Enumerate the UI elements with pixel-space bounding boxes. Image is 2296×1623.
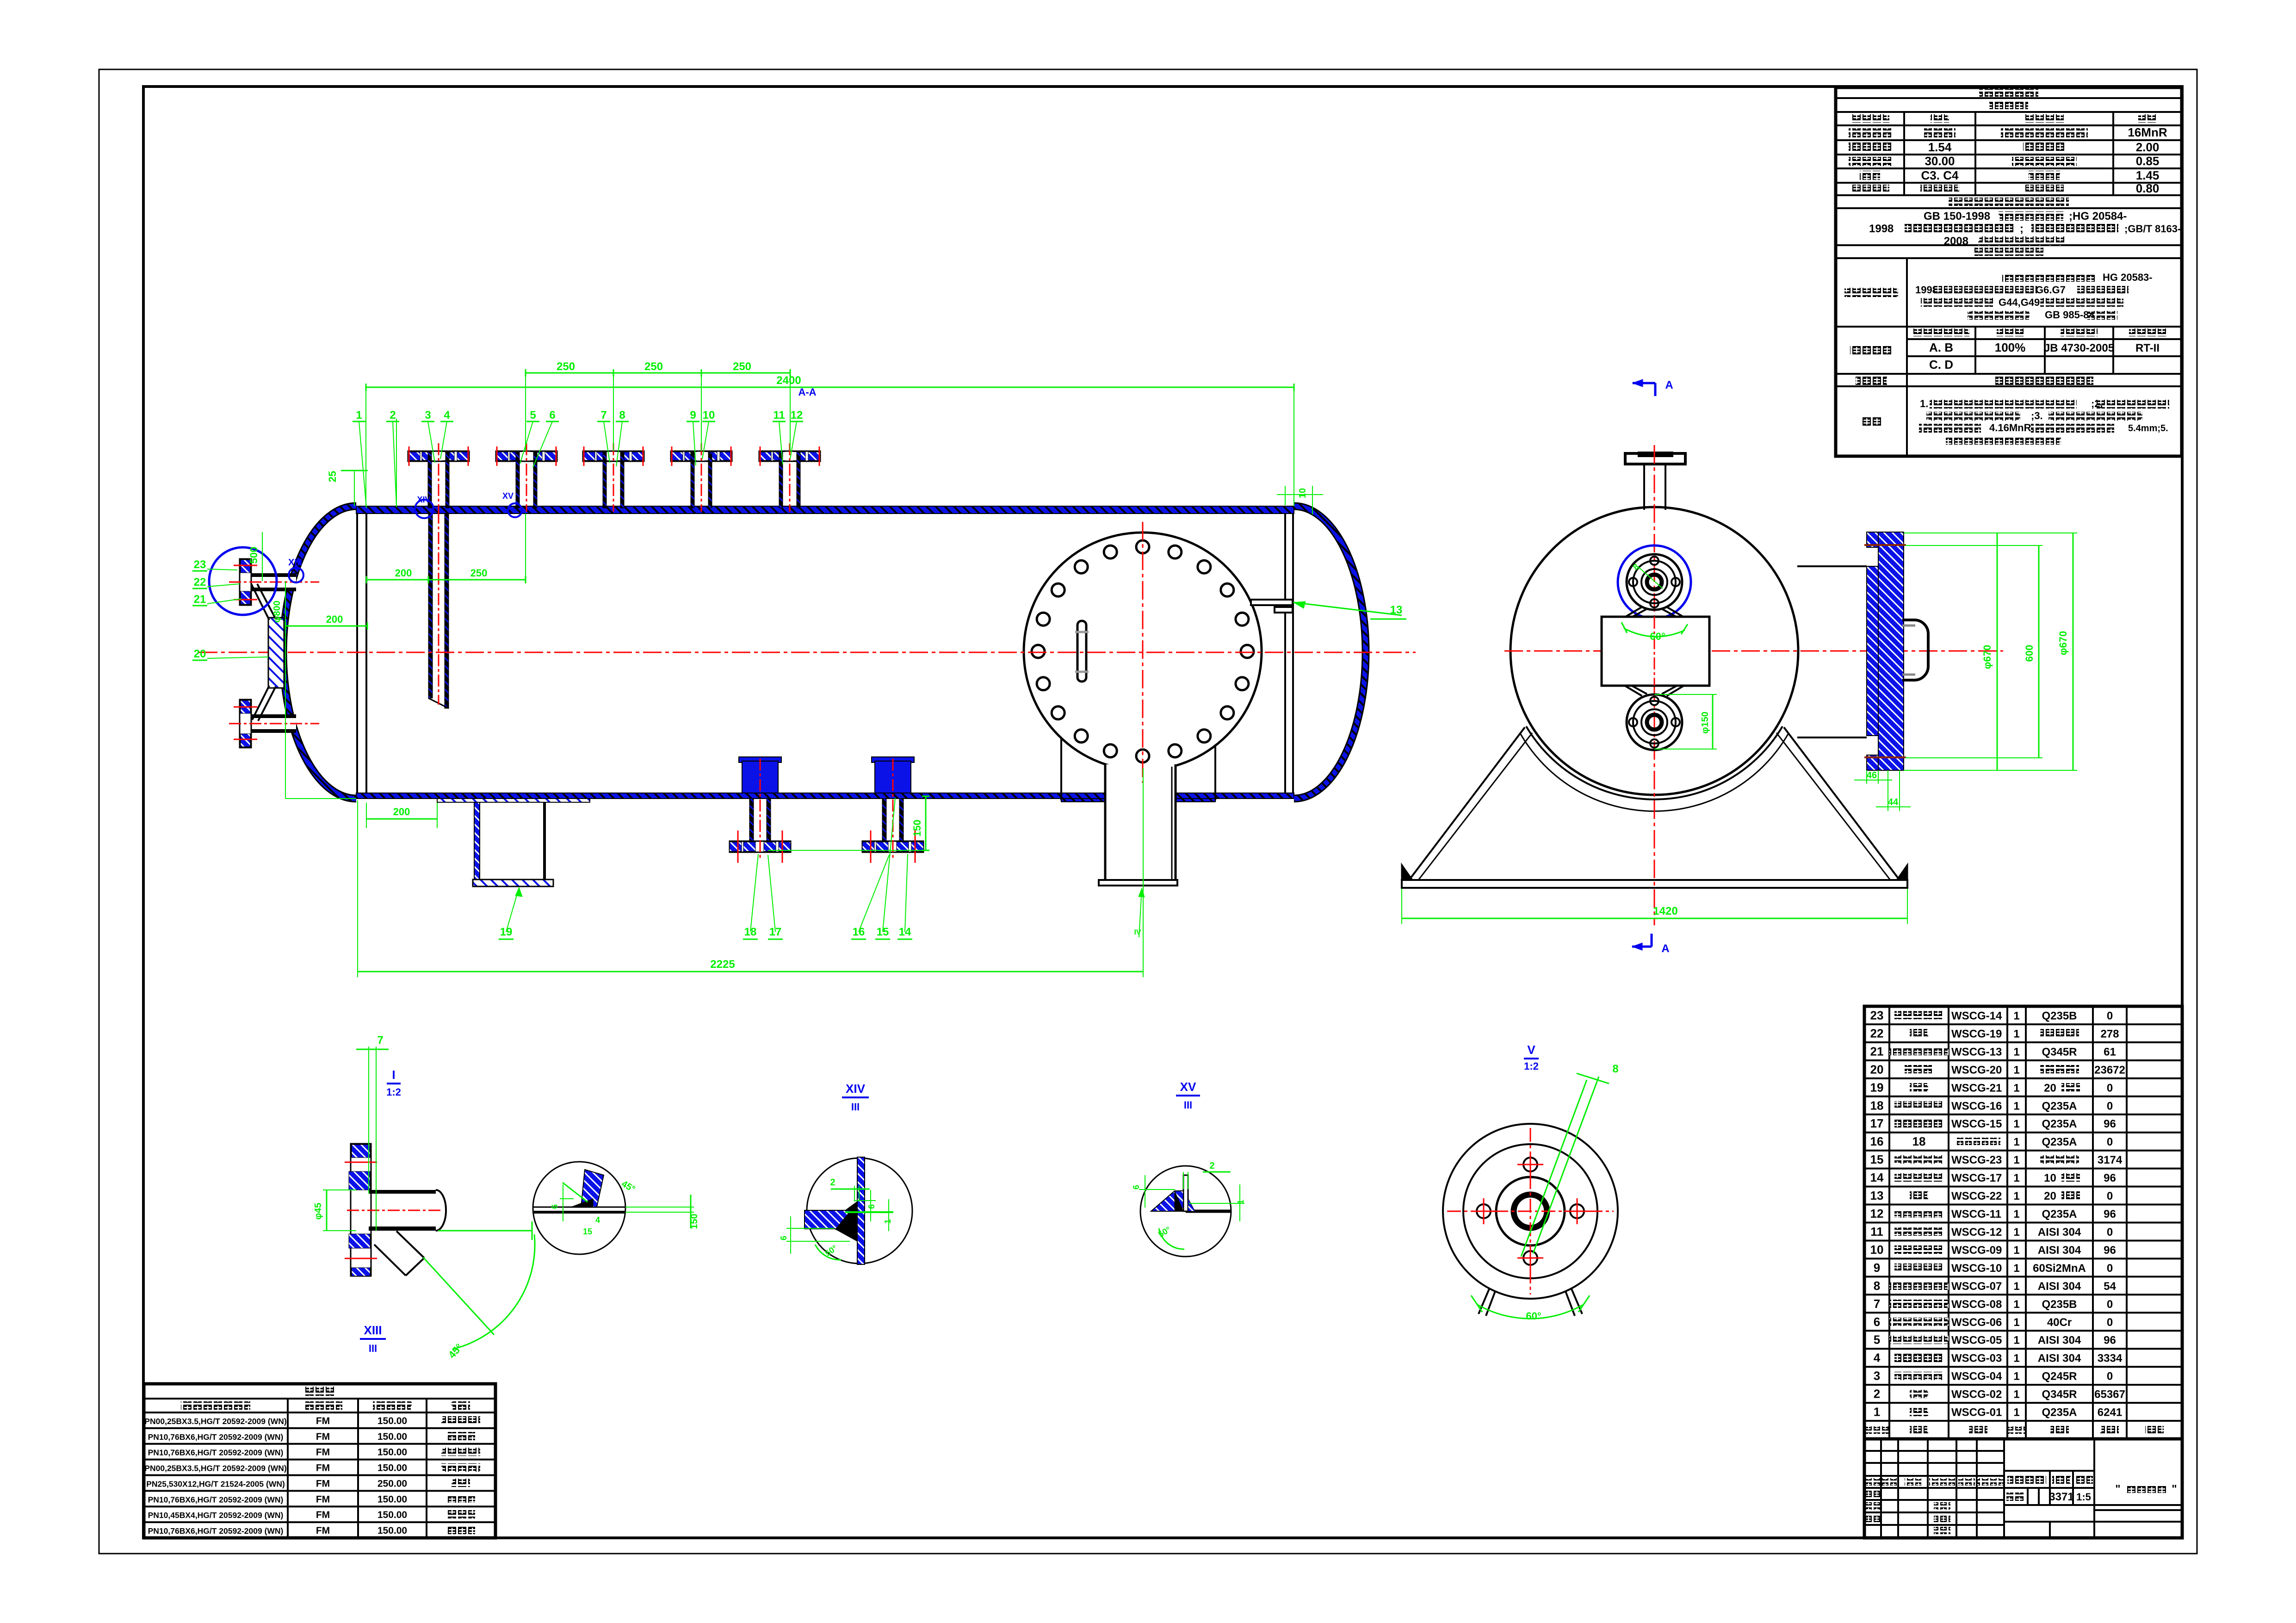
svg-text:6: 6 xyxy=(550,1204,559,1209)
bottom nozzle tube at x=1930 xyxy=(882,799,886,841)
svg-text:1: 1 xyxy=(2013,1046,2019,1058)
level gauge flange assembly side xyxy=(1878,532,1904,770)
svg-text:XIII: XIII xyxy=(288,558,302,568)
top nozzle at x=1326 centerline xyxy=(613,443,614,512)
svg-text:A: A xyxy=(1661,942,1669,955)
svg-text:5: 5 xyxy=(1874,1333,1880,1347)
end view top nozzle stem xyxy=(1643,464,1645,510)
svg-text:AISI 304: AISI 304 xyxy=(2038,1244,2081,1257)
svg-text:1: 1 xyxy=(2013,1280,2019,1293)
svg-text:IV: IV xyxy=(1134,929,1141,936)
top nozzle at x=1516 flange xyxy=(671,451,732,461)
svg-text:19: 19 xyxy=(500,926,513,938)
svg-text:PN00,25BX3.5,HG/T 20592-2009 (: PN00,25BX3.5,HG/T 20592-2009 (WN) xyxy=(144,1417,286,1426)
detail circle XIII marker xyxy=(209,547,277,615)
svg-text:WSCG-03: WSCG-03 xyxy=(1951,1352,2002,1365)
svg-text:WSCG-19: WSCG-19 xyxy=(1951,1028,2002,1040)
svg-text:9: 9 xyxy=(690,409,696,421)
svg-text:65367: 65367 xyxy=(2094,1388,2125,1401)
svg-text:HG 20583-: HG 20583- xyxy=(2103,272,2153,283)
svg-text:1: 1 xyxy=(2013,1316,2019,1329)
svg-text:0: 0 xyxy=(2107,1316,2113,1329)
left head upper nozzle flange xyxy=(240,559,251,605)
svg-text:150.00: 150.00 xyxy=(378,1463,407,1474)
svg-text:150.00: 150.00 xyxy=(378,1416,407,1426)
XIV dims xyxy=(831,1189,870,1190)
svg-text:13: 13 xyxy=(1390,604,1403,616)
svg-text:23: 23 xyxy=(1870,1008,1884,1022)
60 deg arc xyxy=(1477,1304,1584,1319)
dip tube below nozzle 3/4 xyxy=(428,514,433,698)
svg-text:1.: 1. xyxy=(1920,398,1928,409)
svg-text:1.54: 1.54 xyxy=(1928,140,1952,154)
svg-text:16: 16 xyxy=(1870,1134,1884,1148)
weld detail dims xyxy=(560,1198,574,1199)
end view saddle base plate xyxy=(1402,880,1907,888)
vessel centerline xyxy=(199,652,1416,653)
bill of materials table xyxy=(1864,1005,2182,1007)
svg-text:G6.G7: G6.G7 xyxy=(2036,284,2066,296)
svg-text:96: 96 xyxy=(2104,1208,2116,1220)
svg-text:0: 0 xyxy=(2107,1010,2113,1022)
svg-text:φ45: φ45 xyxy=(313,1203,323,1220)
tube lines from vessel to flange xyxy=(1797,565,1867,567)
right elliptical head xyxy=(1294,506,1366,799)
left tangent weld seam lines xyxy=(356,514,358,793)
section arrow A bottom xyxy=(1632,946,1652,948)
svg-text:3: 3 xyxy=(1874,1369,1880,1383)
svg-text:61: 61 xyxy=(2104,1046,2116,1058)
XV weld xyxy=(1151,1191,1183,1211)
svg-text:A: A xyxy=(1665,379,1673,391)
svg-text:Q345R: Q345R xyxy=(2042,1046,2077,1058)
svg-text:2400: 2400 xyxy=(776,374,801,387)
top nozzle at x=1707 flange xyxy=(759,451,820,461)
leader 7 and extension lines xyxy=(368,1047,369,1194)
top nozzle at x=1326 flange xyxy=(583,451,644,461)
svg-text:φ670: φ670 xyxy=(2057,631,2069,655)
svg-text:11: 11 xyxy=(1870,1225,1883,1239)
svg-text:1: 1 xyxy=(2013,1388,2019,1401)
svg-text:0: 0 xyxy=(2107,1298,2113,1311)
svg-text:60Si2MnA: 60Si2MnA xyxy=(2033,1262,2086,1275)
saddle support side view xyxy=(1060,738,1062,800)
dim 25 top-left xyxy=(341,470,368,471)
legs from upper flange to box xyxy=(1625,607,1642,617)
flange face outer circles xyxy=(1443,1124,1618,1299)
top nozzle at x=1326 bolt centerlines xyxy=(583,446,585,466)
top nozzle at x=1516 centerline xyxy=(701,443,702,512)
svg-text:1: 1 xyxy=(883,1219,892,1224)
vortex breaker at x=1930 xyxy=(872,757,914,762)
svg-text:III: III xyxy=(851,1101,860,1113)
svg-text:0: 0 xyxy=(2107,1370,2113,1383)
flange face centerlines xyxy=(1447,1211,1614,1212)
top nozzle at x=948 flange xyxy=(408,451,469,461)
svg-text:2: 2 xyxy=(390,409,396,421)
end view agitator box xyxy=(1602,617,1709,686)
svg-text:1: 1 xyxy=(2013,1064,2019,1076)
svg-text:1: 1 xyxy=(2013,1262,2019,1275)
bottom nozzle tube at x=1643 xyxy=(749,799,754,841)
manhole neck xyxy=(1105,764,1176,880)
weld fillet patch xyxy=(581,1170,604,1207)
svg-text:Q235A: Q235A xyxy=(2042,1136,2077,1148)
svg-text:C. D: C. D xyxy=(1929,358,1953,372)
svg-text:1: 1 xyxy=(2013,1082,2019,1094)
end view saddle slant plates xyxy=(1409,727,1525,880)
svg-text:200: 200 xyxy=(395,567,412,579)
svg-text:25: 25 xyxy=(327,471,338,482)
detail XV circle xyxy=(1140,1166,1231,1257)
dimension 2400 xyxy=(366,387,1294,388)
svg-text:6241: 6241 xyxy=(2098,1406,2122,1419)
svg-text:20: 20 xyxy=(1870,1062,1884,1076)
svg-text:WSCG-23: WSCG-23 xyxy=(1951,1154,2002,1166)
svg-text:250: 250 xyxy=(470,567,488,579)
svg-text:6: 6 xyxy=(779,1236,788,1240)
svg-text:FM: FM xyxy=(316,1525,330,1536)
svg-text:FM: FM xyxy=(316,1478,330,1489)
top nozzle at x=1138 flange xyxy=(496,451,557,461)
vessel shell bottom plate xyxy=(356,793,1294,799)
60deg arc in box xyxy=(1624,628,1685,637)
svg-text:54: 54 xyxy=(2104,1280,2116,1293)
svg-text:22: 22 xyxy=(194,576,206,588)
svg-text:23672: 23672 xyxy=(2094,1064,2125,1076)
svg-text:WSCG-05: WSCG-05 xyxy=(1951,1334,2002,1347)
svg-text:10: 10 xyxy=(2044,1172,2056,1184)
vortex breaker at x=1643 xyxy=(739,757,781,762)
dim 200 (y1253) and 250 xyxy=(366,579,428,581)
svg-text:1: 1 xyxy=(2013,1154,2019,1166)
svg-text:13: 13 xyxy=(1870,1189,1884,1202)
detail XIII flange plate xyxy=(351,1144,371,1276)
top nozzle at x=1138 neck xyxy=(520,452,533,460)
svg-text:150.00: 150.00 xyxy=(378,1447,407,1458)
svg-text:0: 0 xyxy=(2107,1082,2113,1094)
svg-text:4.16MnR: 4.16MnR xyxy=(1989,422,2031,434)
dim 200 at head (y1353) xyxy=(285,626,367,627)
svg-text:7: 7 xyxy=(377,1034,383,1047)
svg-text:0.80: 0.80 xyxy=(2136,181,2160,195)
svg-text:6: 6 xyxy=(1132,1185,1141,1189)
svg-text:60°: 60° xyxy=(1526,1310,1541,1322)
top nozzle at x=1516 neck xyxy=(694,452,708,460)
svg-text:XV: XV xyxy=(1180,1080,1196,1094)
svg-text:I: I xyxy=(392,1068,395,1082)
svg-text:12: 12 xyxy=(791,409,803,421)
svg-text:8: 8 xyxy=(1874,1279,1880,1293)
svg-text:6: 6 xyxy=(867,1204,876,1209)
top nozzle at x=1516 bolt centerlines xyxy=(671,446,673,466)
svg-text:1: 1 xyxy=(2013,1244,2019,1257)
left head upper nozzle (level gauge) tube xyxy=(242,573,296,577)
svg-text:G44,G49: G44,G49 xyxy=(1999,297,2040,308)
svg-text:1: 1 xyxy=(2013,1352,2019,1365)
svg-text:;GB/T 8163-: ;GB/T 8163- xyxy=(2124,223,2181,235)
section arrow A top xyxy=(1633,382,1655,384)
svg-text:150.00: 150.00 xyxy=(378,1525,407,1536)
end view saddle wear-plate arc xyxy=(1526,726,1782,799)
svg-text:Q235A: Q235A xyxy=(2042,1406,2077,1419)
svg-text:III: III xyxy=(369,1343,377,1354)
svg-text:WSCG-02: WSCG-02 xyxy=(1951,1388,2002,1401)
svg-text:A. B: A. B xyxy=(1929,341,1953,354)
svg-text:": " xyxy=(2172,1483,2177,1495)
level gauge body plate xyxy=(268,618,284,688)
end view vessel circle xyxy=(1510,507,1798,795)
svg-text:1: 1 xyxy=(2013,1028,2019,1040)
svg-text:JB 4730-2005: JB 4730-2005 xyxy=(2044,342,2114,354)
svg-text:22: 22 xyxy=(1870,1026,1884,1040)
dim phi800 vertical xyxy=(285,581,286,799)
bottom nozzle flange at x=1930 xyxy=(862,841,923,852)
svg-text:6: 6 xyxy=(549,409,555,421)
svg-text:4: 4 xyxy=(595,1215,600,1225)
svg-text:17: 17 xyxy=(1870,1116,1884,1130)
svg-text:20: 20 xyxy=(2044,1190,2056,1202)
svg-text:AISI 304: AISI 304 xyxy=(2038,1226,2081,1239)
svg-text:250.00: 250.00 xyxy=(378,1478,407,1489)
svg-text:FM: FM xyxy=(316,1510,330,1520)
svg-text:1: 1 xyxy=(2013,1100,2019,1112)
svg-text:9: 9 xyxy=(1874,1261,1880,1275)
svg-text:500: 500 xyxy=(248,547,260,564)
manhole bolt holes xyxy=(1136,540,1149,553)
svg-text:150: 150 xyxy=(689,1214,699,1229)
end view lower nozzle flange face xyxy=(1627,694,1682,750)
top nozzle at x=1707 bolt centerlines xyxy=(760,446,761,466)
svg-text:8: 8 xyxy=(1612,1063,1618,1075)
svg-text:1:5: 1:5 xyxy=(2076,1491,2091,1503)
svg-text:1: 1 xyxy=(1874,1405,1880,1419)
svg-text:A-A: A-A xyxy=(798,386,816,398)
svg-text:1: 1 xyxy=(2013,1370,2019,1383)
manhole cover circle xyxy=(1024,533,1262,770)
svg-text:1: 1 xyxy=(356,409,362,421)
svg-text:20: 20 xyxy=(194,648,206,660)
svg-text:12: 12 xyxy=(1870,1207,1884,1220)
dim phi150 for lower flange xyxy=(1654,694,1717,695)
svg-text:AISI 304: AISI 304 xyxy=(2038,1280,2081,1293)
svg-text:1:2: 1:2 xyxy=(386,1086,401,1098)
svg-text:φ150: φ150 xyxy=(1700,712,1710,734)
svg-text:1998: 1998 xyxy=(1869,223,1894,235)
extension lines for top dims xyxy=(365,387,366,506)
svg-text:RT-II: RT-II xyxy=(2135,342,2160,354)
svg-text:1: 1 xyxy=(2013,1208,2019,1220)
bottom nozzle flange at x=1643 xyxy=(730,841,791,852)
svg-text:WSCG-10: WSCG-10 xyxy=(1951,1262,2002,1275)
svg-text:11: 11 xyxy=(773,409,785,421)
svg-text:φ670: φ670 xyxy=(1981,645,1993,669)
svg-text:PN10,76BX6,HG/T 20592-2009 (WN: PN10,76BX6,HG/T 20592-2009 (WN) xyxy=(148,1526,284,1536)
svg-text:150: 150 xyxy=(911,820,923,837)
svg-text:150.00: 150.00 xyxy=(378,1494,407,1505)
svg-text:2: 2 xyxy=(1874,1387,1880,1401)
leg support column xyxy=(474,802,480,880)
XV plates xyxy=(1186,1210,1231,1213)
svg-text:Q345R: Q345R xyxy=(2042,1388,2077,1401)
svg-text:": " xyxy=(2115,1483,2120,1495)
svg-text:16MnR: 16MnR xyxy=(2128,125,2167,139)
top nozzle at x=948 centerline xyxy=(438,443,439,512)
svg-text:15: 15 xyxy=(1870,1152,1884,1166)
top nozzle at x=948 neck xyxy=(432,452,446,460)
svg-text:5: 5 xyxy=(530,409,536,421)
svg-text:20: 20 xyxy=(2044,1082,2056,1094)
svg-text:4: 4 xyxy=(444,409,450,421)
svg-text:46: 46 xyxy=(1867,770,1877,781)
svg-text:;: ; xyxy=(2020,223,2024,235)
svg-text:FM: FM xyxy=(316,1416,330,1426)
dim 150 right of bottom nozzle xyxy=(925,796,927,850)
design data table xyxy=(1836,87,2182,456)
svg-text:18: 18 xyxy=(1870,1098,1884,1112)
svg-text:1: 1 xyxy=(2013,1334,2019,1347)
svg-text:1: 1 xyxy=(2013,1190,2019,1202)
svg-text:40Cr: 40Cr xyxy=(2047,1316,2072,1329)
svg-text:96: 96 xyxy=(2104,1334,2116,1347)
svg-text:19: 19 xyxy=(1870,1080,1884,1094)
svg-text:21: 21 xyxy=(1870,1044,1884,1058)
svg-text:WSCG-11: WSCG-11 xyxy=(1951,1208,2001,1220)
svg-text:WSCG-01: WSCG-01 xyxy=(1951,1406,2002,1419)
svg-text:GB 150-1998: GB 150-1998 xyxy=(1924,210,1990,223)
detail XIII 45deg stub xyxy=(374,1245,406,1276)
end view vertical centerline xyxy=(1654,445,1655,925)
svg-text:5.4mm;5.: 5.4mm;5. xyxy=(2128,423,2168,434)
leader 13 xyxy=(1293,602,1402,615)
svg-text:WSCG-21: WSCG-21 xyxy=(1951,1082,2002,1094)
svg-text:;3.: ;3. xyxy=(2031,410,2043,421)
svg-text:96: 96 xyxy=(2104,1118,2116,1130)
svg-text:XIV: XIV xyxy=(846,1082,866,1096)
left elliptical head xyxy=(283,506,356,799)
left head lower nozzle tube xyxy=(242,714,296,718)
svg-text:0: 0 xyxy=(2107,1226,2113,1239)
svg-text:8: 8 xyxy=(619,409,625,421)
weld detail circle (plate) xyxy=(533,1162,625,1254)
inner border frame xyxy=(143,87,2182,1538)
svg-text:600: 600 xyxy=(2024,645,2035,662)
svg-text:44: 44 xyxy=(1888,797,1899,807)
svg-text:Q235B: Q235B xyxy=(2042,1010,2077,1022)
title block xyxy=(1864,1439,2182,1538)
svg-text:;HG 20584-: ;HG 20584- xyxy=(2069,210,2127,223)
svg-text:1:2: 1:2 xyxy=(1524,1060,1539,1072)
end view detail circle marker (blue) xyxy=(1618,545,1691,619)
svg-text:Q235A: Q235A xyxy=(2042,1118,2077,1130)
svg-text:10: 10 xyxy=(703,409,715,421)
top nozzle at x=1707 centerline xyxy=(789,443,791,512)
svg-text:150.00: 150.00 xyxy=(378,1510,407,1520)
dim 10 at right tangent xyxy=(1285,486,1286,505)
svg-text:III: III xyxy=(1184,1099,1192,1111)
nozzle schedule table xyxy=(144,1384,495,1538)
svg-text:96: 96 xyxy=(2104,1172,2116,1184)
svg-text:PN10,45BX4,HG/T 20592-2009 (WN: PN10,45BX4,HG/T 20592-2009 (WN) xyxy=(148,1511,284,1520)
vessel shell top plate xyxy=(356,506,1294,514)
svg-text:WSCG-15: WSCG-15 xyxy=(1951,1118,2002,1130)
svg-text:PN10,76BX6,HG/T 20592-2009 (WN: PN10,76BX6,HG/T 20592-2009 (WN) xyxy=(148,1495,284,1504)
svg-text:6: 6 xyxy=(1874,1315,1880,1329)
small green marker near manhole neck xyxy=(1139,888,1142,937)
svg-text:XV: XV xyxy=(502,491,514,501)
svg-text:V: V xyxy=(1527,1043,1535,1057)
svg-text:0.85: 0.85 xyxy=(2136,154,2160,168)
svg-text:FM: FM xyxy=(316,1447,330,1458)
svg-text:3371: 3371 xyxy=(2049,1491,2073,1503)
svg-text:16: 16 xyxy=(853,926,865,938)
nozzle 13 stub on right head xyxy=(1251,600,1293,605)
svg-text:3: 3 xyxy=(425,409,431,421)
dim 1420 xyxy=(1402,918,1907,919)
svg-text:1420: 1420 xyxy=(1653,905,1677,917)
svg-text:1: 1 xyxy=(1236,1200,1245,1204)
svg-text:1.45: 1.45 xyxy=(2136,168,2160,182)
dim phi45 xyxy=(326,1190,328,1231)
manhole handle slot xyxy=(1077,621,1086,681)
svg-text:Q235B: Q235B xyxy=(2042,1298,2077,1311)
svg-text:14: 14 xyxy=(1870,1171,1884,1184)
svg-text:1: 1 xyxy=(2013,1298,2019,1311)
svg-text:21: 21 xyxy=(194,593,206,606)
detail XIII tube xyxy=(369,1190,436,1194)
XIV vertical plate xyxy=(857,1157,865,1264)
dim 600 xyxy=(1905,545,2042,546)
svg-text:AISI 304: AISI 304 xyxy=(2038,1352,2081,1365)
svg-text:30.00: 30.00 xyxy=(1925,154,1955,168)
svg-text:15: 15 xyxy=(583,1227,592,1236)
XIV horizontal plate xyxy=(805,1210,857,1229)
svg-text:100%: 100% xyxy=(1995,341,2026,354)
leg support wear plate xyxy=(437,799,590,802)
top nozzle at x=1326 neck xyxy=(606,452,620,460)
top nozzle at x=1707 neck xyxy=(783,452,797,460)
level gauge braces xyxy=(251,584,269,620)
svg-text:WSCG-22: WSCG-22 xyxy=(1951,1190,2002,1202)
svg-text:C3. C4: C3. C4 xyxy=(1921,168,1959,182)
handle on flange xyxy=(1902,620,1928,680)
svg-text:250: 250 xyxy=(733,360,751,373)
svg-text:FM: FM xyxy=(316,1431,330,1442)
manhole bottom flange xyxy=(1099,880,1177,886)
end view top nozzle flange xyxy=(1625,453,1685,464)
flange face bolt holes xyxy=(1523,1158,1537,1171)
svg-text:WSCG-08: WSCG-08 xyxy=(1951,1298,2002,1311)
svg-text:10: 10 xyxy=(1298,488,1308,498)
svg-text:250: 250 xyxy=(557,360,575,373)
svg-text:1: 1 xyxy=(2013,1172,2019,1184)
top nozzle at x=948 bolt centerlines xyxy=(408,446,410,466)
svg-text:PN00,25BX3.5,HG/T 20592-2009 (: PN00,25BX3.5,HG/T 20592-2009 (WN) xyxy=(144,1464,286,1473)
svg-text:200: 200 xyxy=(326,613,343,625)
svg-text:0: 0 xyxy=(2107,1190,2113,1202)
right tangent weld seam lines xyxy=(1284,514,1286,793)
detail XIV circle xyxy=(807,1158,912,1264)
svg-text:WSCG-04: WSCG-04 xyxy=(1951,1370,2002,1383)
svg-text:WSCG-07: WSCG-07 xyxy=(1951,1280,2002,1293)
svg-text:WSCG-06: WSCG-06 xyxy=(1951,1316,2002,1329)
end view horizontal centerline xyxy=(1504,650,2003,652)
svg-text:10: 10 xyxy=(1870,1243,1884,1257)
manhole vertical centerline xyxy=(1142,522,1144,783)
svg-text:XIII: XIII xyxy=(364,1323,382,1337)
svg-text:FM: FM xyxy=(316,1494,330,1505)
svg-text:250: 250 xyxy=(644,360,663,373)
